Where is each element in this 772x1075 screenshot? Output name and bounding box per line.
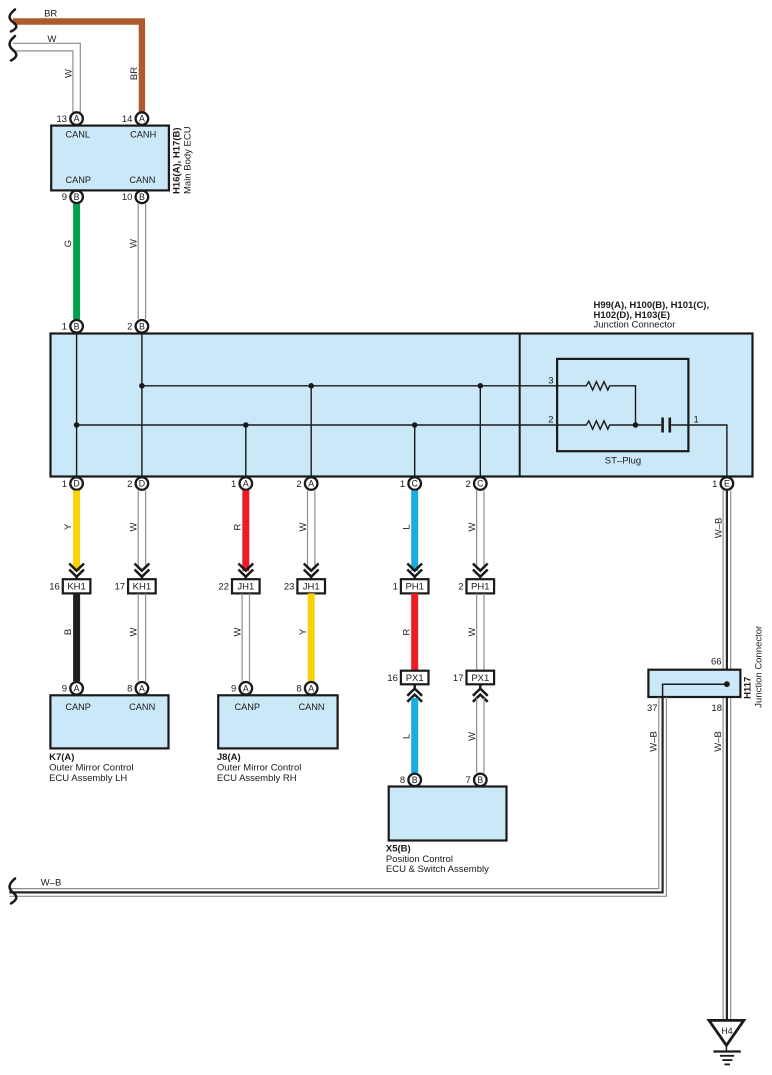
wire W (2A to JH1-23) (308, 491, 315, 570)
resistor R-upper (584, 382, 611, 390)
pin 2 D (bottom of junction box) (127, 477, 148, 490)
svg-text:Junction Connector: Junction Connector (594, 320, 676, 331)
svg-text:KH1: KH1 (67, 582, 85, 593)
svg-text:2: 2 (127, 479, 132, 490)
svg-text:CANP: CANP (235, 702, 261, 712)
connector 16 PX1 (387, 671, 428, 685)
arrow up out of PX1-16 (407, 684, 422, 702)
svg-text:CANN: CANN (129, 702, 155, 712)
svg-text:10: 10 (122, 192, 133, 203)
svg-text:Main Body ECU: Main Body ECU (183, 126, 194, 194)
svg-text:1: 1 (231, 479, 236, 490)
svg-text:18: 18 (711, 703, 722, 714)
junction dot col5/lower bus (412, 422, 418, 428)
svg-text:W: W (47, 34, 56, 45)
svg-text:Y: Y (298, 628, 309, 635)
wire W (KH1-17 to K7 pin 8) (138, 593, 145, 681)
internal wire column 3 (lower bus to 1A) (245, 425, 247, 477)
connector 1 PH1 (393, 579, 429, 593)
wire W-B (H117 pin 37 down, left to break) (9, 697, 666, 896)
break symbol (W wire, left edge) (10, 36, 17, 61)
svg-text:J8(A): J8(A) (217, 752, 241, 763)
X5(B) box Position Control ECU & Switch Assembly (389, 787, 507, 841)
svg-text:22: 22 (218, 582, 229, 593)
pin 9 B (62, 191, 83, 204)
svg-text:CANP: CANP (66, 175, 92, 185)
wire W from pin 10 to junction connector pin 2(B) (138, 204, 145, 319)
svg-text:A: A (243, 683, 249, 693)
svg-text:B: B (412, 775, 418, 785)
svg-text:L: L (401, 524, 412, 529)
pin 8 A (K7) (127, 682, 148, 695)
pin 2 A (bottom of junction box) (296, 477, 317, 490)
internal wire column 4 (upper bus to 2A) (310, 386, 312, 477)
wire B (KH1-16 to K7 pin 9) (73, 593, 80, 681)
lower bus wire to ST-plug pin 2 (77, 424, 584, 426)
svg-text:ECU & Switch Assembly: ECU & Switch Assembly (386, 864, 489, 875)
svg-text:BR: BR (129, 67, 140, 80)
svg-text:BR: BR (44, 9, 57, 20)
svg-text:7: 7 (466, 775, 471, 786)
svg-text:8: 8 (400, 775, 405, 786)
svg-text:W–B: W–B (649, 731, 660, 752)
svg-text:8: 8 (296, 684, 301, 695)
svg-text:CANL: CANL (66, 130, 91, 140)
internal wire column 2 (pin 2B to 2D) (141, 334, 143, 477)
svg-text:W–B: W–B (41, 878, 62, 889)
pin 9 A (J8) (231, 682, 252, 695)
svg-text:W: W (467, 522, 478, 531)
svg-text:B: B (139, 321, 145, 331)
svg-text:2: 2 (296, 479, 301, 490)
wire R (PH1-1 to PX1-16) (411, 593, 418, 671)
svg-text:W: W (467, 732, 478, 741)
svg-text:17: 17 (115, 582, 126, 593)
svg-text:W: W (64, 69, 75, 78)
svg-text:W: W (129, 522, 140, 531)
svg-text:Outer Mirror Control: Outer Mirror Control (49, 763, 133, 774)
svg-text:D: D (73, 479, 79, 489)
arrow into PH1-1 (407, 564, 422, 581)
svg-text:2: 2 (466, 479, 471, 490)
svg-text:PX1: PX1 (406, 673, 424, 684)
svg-text:W: W (129, 239, 140, 248)
wire from R-lower to capacitor (611, 424, 662, 426)
svg-text:9: 9 (62, 192, 67, 203)
svg-text:1: 1 (393, 582, 398, 593)
pin 1 D (bottom of junction box) (62, 477, 83, 490)
connector 16 KH1 (49, 579, 90, 593)
svg-text:C: C (477, 479, 484, 489)
svg-text:JH1: JH1 (237, 582, 254, 593)
svg-text:1: 1 (62, 322, 67, 333)
internal wire H117 (pin 37 to dot) (663, 684, 727, 697)
svg-text:B: B (74, 192, 80, 202)
main body ECU box H16/H17 (51, 126, 169, 191)
wire L (PX1-16 to X5 pin 8) (411, 698, 418, 773)
svg-text:W–B: W–B (714, 518, 725, 539)
svg-text:23: 23 (284, 582, 295, 593)
svg-text:B: B (63, 629, 74, 635)
arrow into PH1-2 (473, 564, 488, 581)
break symbol (bottom W-B wire, left edge) (10, 879, 17, 904)
K7(A) box Outer Mirror Control ECU Assembly LH (50, 695, 168, 748)
wire W (2C to PH1-2) (477, 491, 484, 570)
internal wire column 5 (lower bus to 1C) (414, 425, 416, 477)
wire L (1C to PH1-1) (411, 491, 418, 572)
svg-text:PX1: PX1 (471, 673, 489, 684)
svg-text:1: 1 (62, 479, 67, 490)
svg-text:PH1: PH1 (471, 582, 489, 593)
arrow into JH1-22 (238, 564, 253, 581)
svg-text:1: 1 (694, 414, 699, 425)
arrow into KH1-16 (69, 564, 84, 581)
svg-text:17: 17 (453, 673, 464, 684)
ST-Plug box (557, 359, 688, 451)
svg-text:A: A (308, 683, 314, 693)
svg-text:9: 9 (231, 684, 236, 695)
pin 10 B (122, 191, 148, 204)
svg-text:D: D (139, 479, 145, 489)
resistor R-lower (584, 421, 611, 429)
pin 14 A (122, 112, 148, 125)
svg-text:K7(A): K7(A) (49, 752, 74, 763)
svg-text:3: 3 (548, 375, 553, 386)
pin 1 B (top of junction box) (62, 320, 83, 333)
H117 junction connector box (648, 670, 740, 697)
connector 22 JH1 (218, 579, 259, 593)
svg-text:W–B: W–B (713, 731, 724, 752)
pin 2 C (bottom of junction box) (466, 477, 487, 490)
svg-text:CANN: CANN (298, 702, 324, 712)
svg-text:R: R (401, 628, 412, 635)
wire BR horizontal+vertical to pin 14 (13, 22, 142, 112)
svg-text:37: 37 (647, 703, 658, 714)
connector 23 JH1 (284, 579, 325, 593)
svg-text:H4: H4 (721, 1026, 732, 1036)
svg-text:Outer Mirror Control: Outer Mirror Control (217, 763, 301, 774)
svg-text:W: W (129, 627, 140, 636)
pin 8 A (J8) (296, 682, 317, 695)
svg-text:ECU Assembly RH: ECU Assembly RH (217, 773, 297, 784)
svg-text:B: B (139, 192, 145, 202)
wire W (PH1-2 to PX1-17) (477, 593, 484, 671)
svg-text:9: 9 (62, 684, 67, 695)
svg-text:1: 1 (400, 479, 405, 490)
svg-text:W: W (467, 627, 478, 636)
svg-text:1: 1 (712, 479, 717, 490)
svg-text:CANN: CANN (129, 175, 155, 185)
junction connector box H99-H103 (51, 334, 753, 477)
svg-text:B: B (74, 321, 80, 331)
svg-text:ST–Plug: ST–Plug (605, 456, 641, 467)
wire W-B (1E down to ground H4) (723, 491, 731, 1021)
pin 9 A (K7) (62, 682, 83, 695)
svg-text:PH1: PH1 (405, 582, 423, 593)
svg-text:2: 2 (458, 582, 463, 593)
svg-text:G: G (63, 240, 74, 247)
junction dot H117 (724, 681, 730, 687)
label H99(A), H100(B), H101(C), H102(D), H103(E) Junction Connector (594, 300, 710, 331)
svg-text:W: W (298, 522, 309, 531)
svg-text:C: C (412, 479, 419, 489)
wire W (2D to KH1-17) (138, 491, 145, 570)
wire from R-upper to junction (611, 386, 636, 425)
pin 1 C (bottom of junction box) (400, 477, 421, 490)
arrow up out of PX1-17 (473, 684, 488, 702)
svg-text:R: R (232, 523, 243, 530)
svg-text:A: A (74, 683, 80, 693)
pin 1 A (bottom of junction box) (231, 477, 252, 490)
svg-text:W: W (232, 627, 243, 636)
connector 17 PX1 (453, 671, 494, 685)
wire from capacitor to pin 1E column (671, 425, 727, 477)
svg-text:13: 13 (57, 114, 68, 125)
svg-text:16: 16 (387, 673, 398, 684)
connector 2 PH1 (458, 579, 494, 593)
svg-text:ECU Assembly LH: ECU Assembly LH (49, 773, 127, 784)
junction dot ST-plug (633, 422, 639, 428)
wire W (PX1-17 to X5 pin 7) (477, 698, 484, 773)
pin 7 B (X5) (466, 774, 487, 787)
internal wire column 1 (pin 1B to 1D) (76, 334, 78, 477)
break symbol (BR wire, left edge) (10, 10, 17, 32)
wire Y (JH1-23 to J8 pin 8) (308, 593, 315, 681)
svg-text:66: 66 (711, 657, 722, 668)
svg-text:Y: Y (63, 523, 74, 530)
pin 1 E (bottom of junction box) (712, 477, 733, 490)
svg-text:L: L (401, 734, 412, 739)
svg-text:2: 2 (548, 414, 553, 425)
junction dot col4/upper bus (308, 383, 314, 389)
wire R (1A to JH1-22) (242, 491, 249, 572)
label X5(B) Position Control ECU & Switch Assembly (386, 844, 489, 876)
svg-text:H16(A), H17(B): H16(A), H17(B) (172, 127, 183, 194)
svg-text:A: A (139, 114, 145, 124)
upper bus wire to ST-plug pin 3 (142, 385, 584, 387)
svg-text:JH1: JH1 (303, 582, 320, 593)
connector 17 KH1 (115, 579, 156, 593)
pin 2 B (top of junction box) (127, 320, 148, 333)
pin 8 B (X5) (400, 774, 421, 787)
svg-text:E: E (724, 479, 730, 489)
wire Y (1D to KH1-16) (73, 491, 80, 572)
J8(A) box Outer Mirror Control ECU Assembly RH (218, 695, 337, 748)
svg-text:CANH: CANH (130, 130, 156, 140)
wire W (JH1-22 to J8 pin 9) (242, 593, 249, 681)
svg-text:H117: H117 (743, 677, 754, 699)
junction dot col3/lower bus (243, 422, 249, 428)
svg-text:A: A (308, 479, 314, 489)
junction dot col6/upper bus (478, 383, 484, 389)
wire W top-left to pin 13 (13, 43, 80, 112)
junction connector internal divider (519, 334, 521, 477)
svg-text:B: B (477, 775, 483, 785)
capacitor (663, 418, 670, 433)
svg-text:16: 16 (49, 582, 60, 593)
label K7(A) Outer Mirror Control ECU Assembly LH (49, 752, 133, 784)
arrow into JH1-23 (304, 564, 319, 581)
svg-text:8: 8 (127, 684, 132, 695)
junction dot col1/lower bus (74, 422, 80, 428)
svg-text:14: 14 (122, 114, 133, 125)
label J8(A) Outer Mirror Control ECU Assembly RH (217, 752, 301, 784)
svg-text:A: A (74, 114, 80, 124)
internal wire column 6 (upper bus to 2C) (479, 386, 481, 477)
svg-text:A: A (243, 479, 249, 489)
pin 13 A (57, 112, 83, 125)
svg-text:KH1: KH1 (133, 582, 151, 593)
svg-text:CANP: CANP (65, 702, 91, 712)
label H117 Junction Connector (rotated) (743, 626, 765, 708)
junction dot col2/upper bus (139, 383, 145, 389)
wire G from pin 9 to junction connector pin 1(B) (73, 204, 80, 319)
svg-text:2: 2 (127, 322, 132, 333)
ground H4 (709, 1020, 744, 1064)
svg-text:A: A (139, 683, 145, 693)
svg-text:Junction Connector: Junction Connector (754, 626, 765, 708)
arrow into KH1-17 (135, 564, 150, 581)
